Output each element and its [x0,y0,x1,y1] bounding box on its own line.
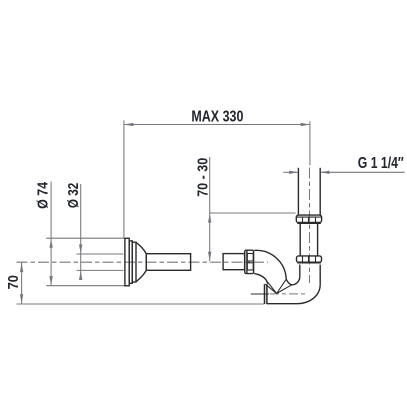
svg-text:70: 70 [6,275,22,289]
svg-text:G 1 1/4″: G 1 1/4″ [358,155,404,172]
svg-text:MAX 330: MAX 330 [191,109,243,126]
svg-text:Ø 32: Ø 32 [66,183,82,208]
svg-text:70 - 30: 70 - 30 [196,158,212,197]
svg-text:Ø 74: Ø 74 [35,182,51,209]
